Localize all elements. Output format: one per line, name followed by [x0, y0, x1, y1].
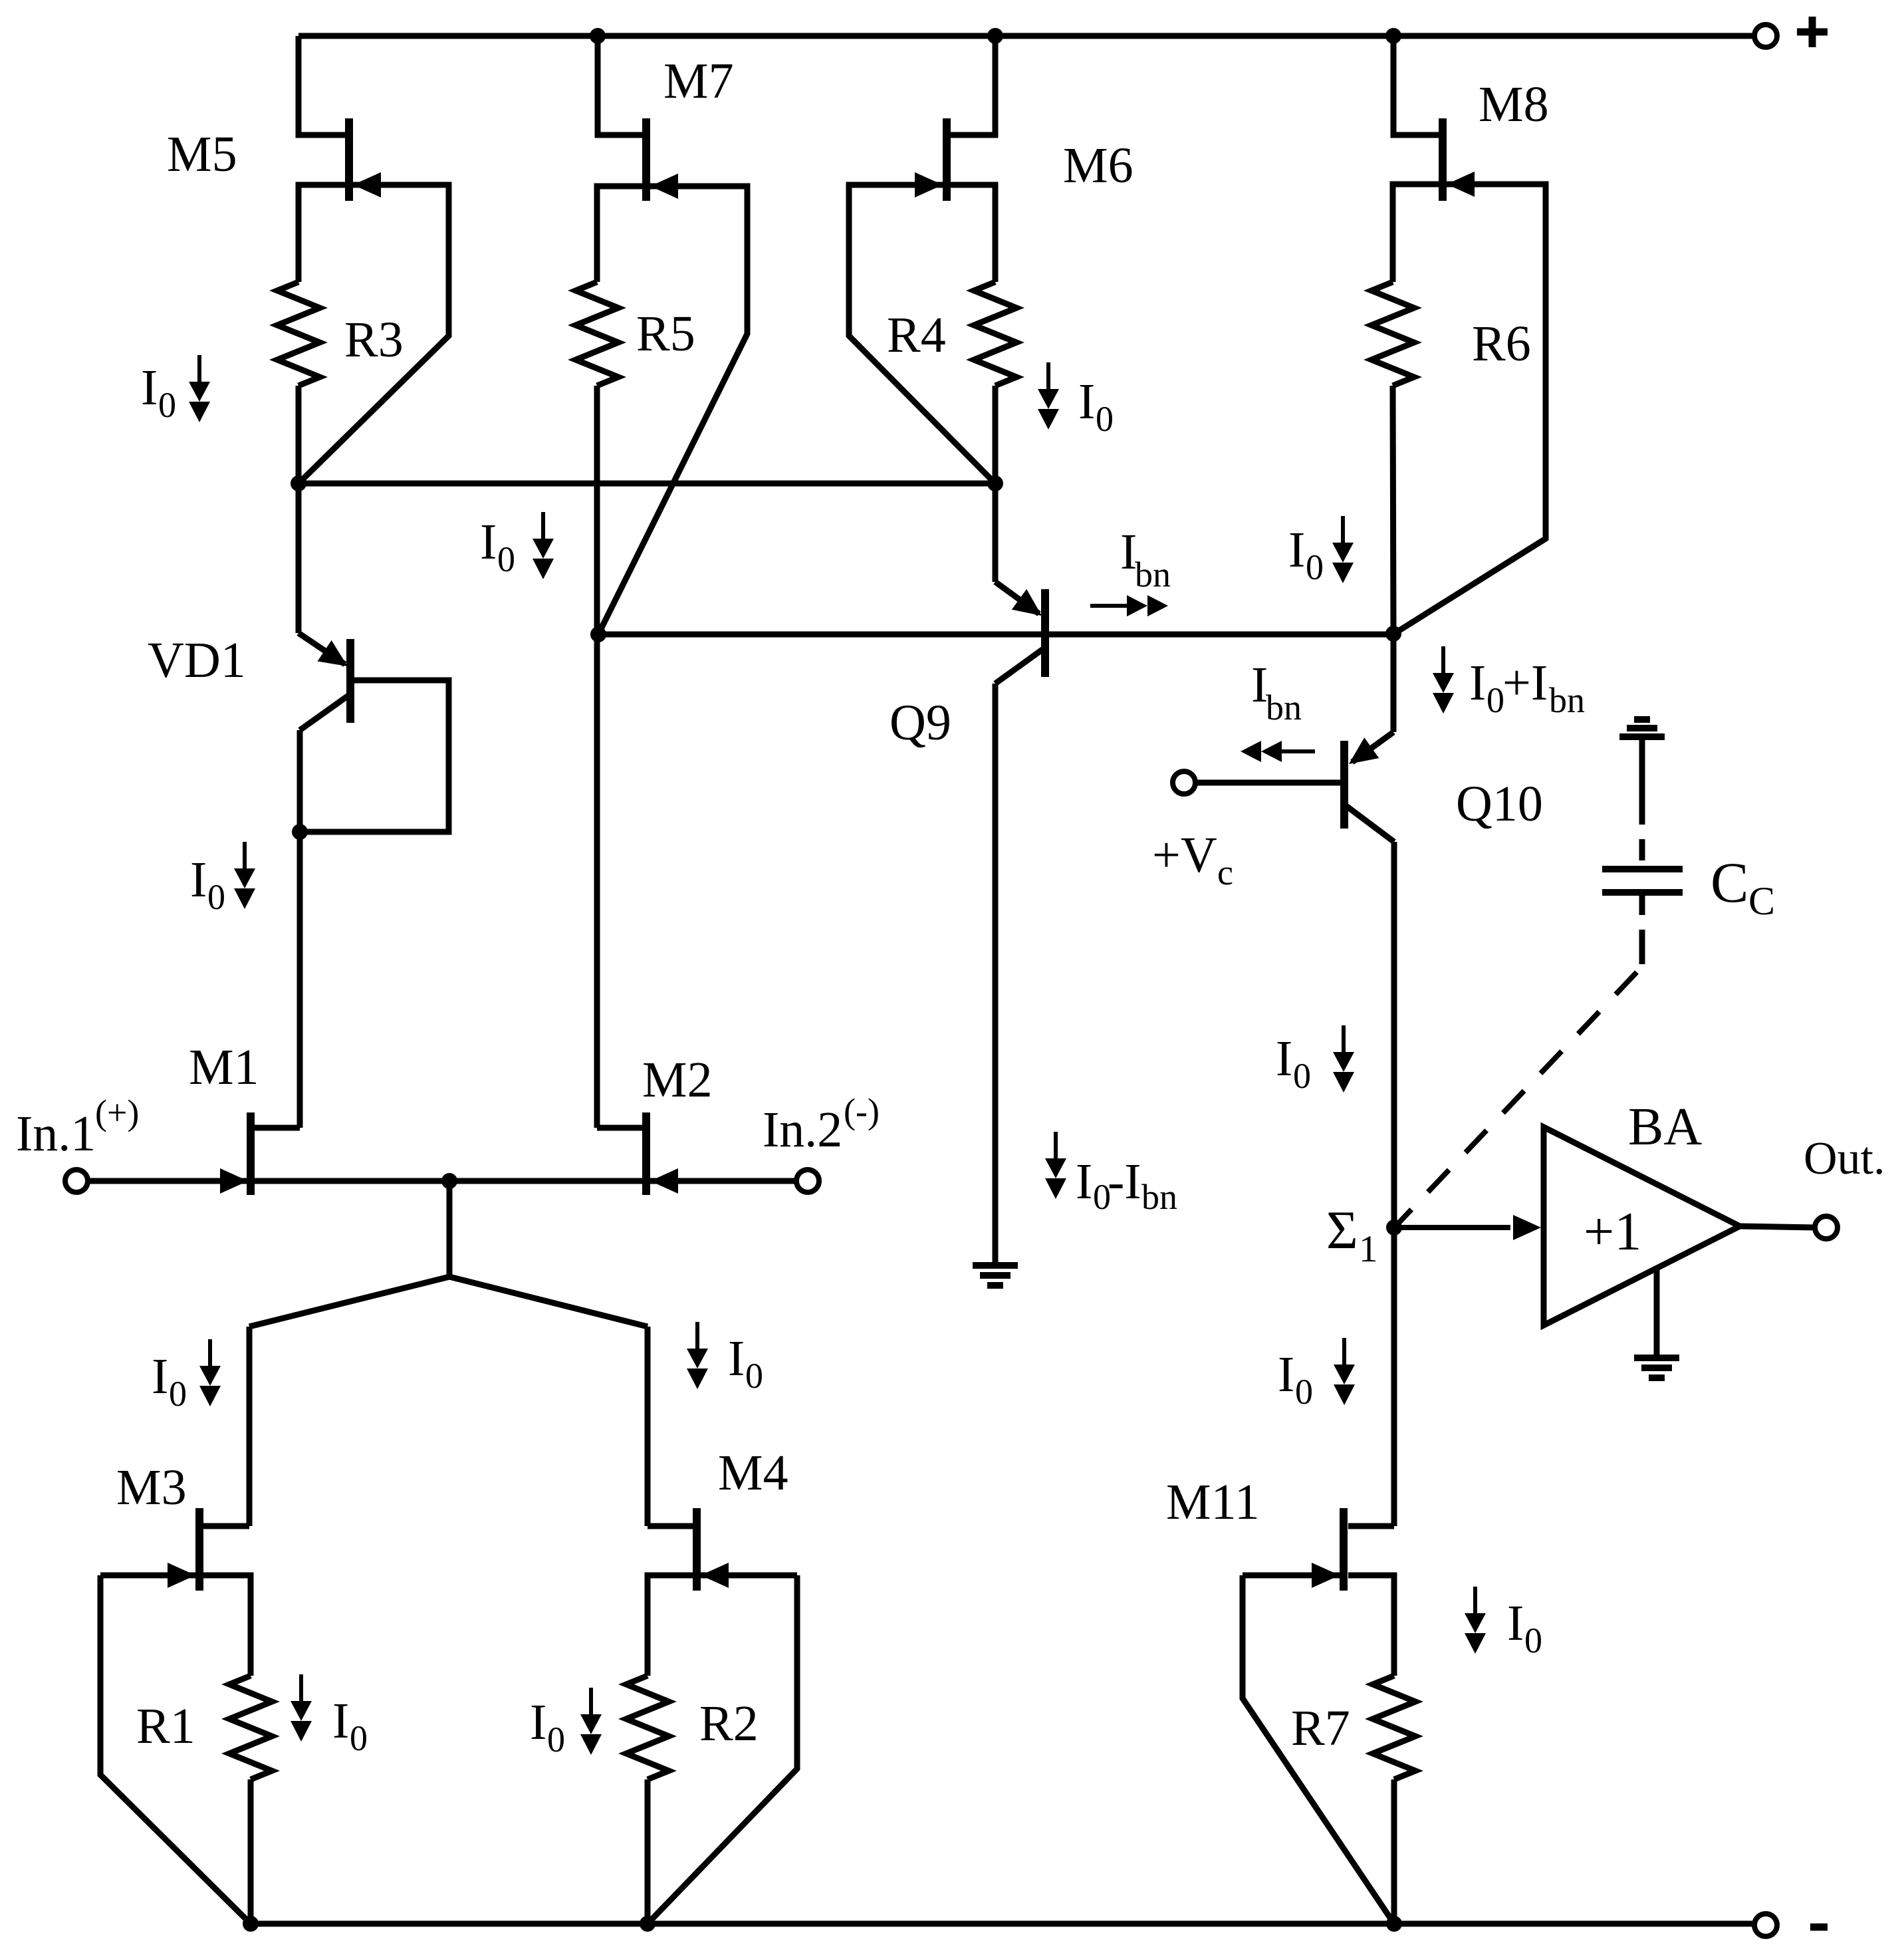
svg-text:0: 0: [1524, 1621, 1542, 1660]
svg-text:0: 0: [169, 1374, 187, 1414]
svg-text:I: I: [530, 1694, 546, 1750]
svg-text:I: I: [152, 1349, 168, 1404]
svg-text:0: 0: [497, 539, 515, 579]
svg-text:I: I: [1078, 374, 1095, 430]
svg-text:R2: R2: [699, 1696, 759, 1752]
svg-text:bn: bn: [1135, 555, 1171, 594]
svg-text:I: I: [1076, 1154, 1092, 1210]
svg-text:I: I: [728, 1331, 745, 1386]
svg-text:+1: +1: [1584, 1201, 1641, 1261]
svg-text:R3: R3: [344, 312, 404, 368]
svg-text:M8: M8: [1479, 76, 1549, 132]
svg-text:Q10: Q10: [1456, 776, 1543, 832]
svg-text:M1: M1: [189, 1039, 259, 1095]
svg-text:Q9: Q9: [890, 695, 951, 751]
svg-text:I: I: [1288, 522, 1305, 578]
svg-text:bn: bn: [1141, 1177, 1177, 1217]
svg-text:M6: M6: [1063, 138, 1133, 194]
svg-text:C: C: [1711, 850, 1748, 914]
svg-text:bn: bn: [1549, 680, 1585, 720]
svg-text:I: I: [1276, 1031, 1292, 1087]
svg-text:I: I: [1507, 1595, 1524, 1651]
svg-text:0: 0: [1306, 547, 1324, 587]
svg-text:I: I: [1278, 1347, 1294, 1402]
svg-text:0: 0: [1295, 1372, 1313, 1412]
svg-text:I: I: [480, 514, 497, 570]
svg-text:+V: +V: [1152, 827, 1217, 883]
svg-text:In.2: In.2: [763, 1102, 842, 1158]
svg-text:0: 0: [1293, 1056, 1311, 1096]
svg-text:(-): (-): [844, 1091, 880, 1131]
svg-text:c: c: [1217, 852, 1233, 892]
svg-text:In.1: In.1: [16, 1106, 96, 1162]
svg-text:Σ: Σ: [1326, 1200, 1358, 1260]
svg-text:+I: +I: [1502, 655, 1548, 711]
svg-text:I: I: [190, 852, 207, 908]
svg-text:M4: M4: [718, 1445, 788, 1501]
svg-text:R6: R6: [1472, 316, 1531, 372]
svg-text:M5: M5: [167, 126, 237, 182]
svg-text:R4: R4: [887, 307, 946, 363]
svg-text:0: 0: [745, 1356, 763, 1396]
svg-text:0: 0: [350, 1718, 368, 1758]
svg-text:R7: R7: [1291, 1700, 1350, 1756]
svg-text:0: 0: [1096, 399, 1114, 439]
svg-text:1: 1: [1359, 1228, 1378, 1270]
svg-text:VD1: VD1: [148, 632, 246, 688]
svg-text:0: 0: [1487, 680, 1504, 720]
svg-text:M2: M2: [642, 1052, 713, 1108]
svg-text:I: I: [1469, 655, 1486, 711]
svg-text:M3: M3: [116, 1460, 187, 1515]
svg-text:-I: -I: [1108, 1154, 1141, 1210]
svg-text:I: I: [332, 1693, 349, 1749]
svg-text:0: 0: [547, 1720, 565, 1759]
svg-text:Out.: Out.: [1804, 1133, 1885, 1184]
svg-text:bn: bn: [1266, 688, 1302, 727]
svg-text:0: 0: [158, 385, 176, 425]
svg-text:(+): (+): [95, 1093, 139, 1132]
svg-text:0: 0: [207, 877, 225, 917]
svg-text:M7: M7: [663, 53, 734, 109]
svg-text:C: C: [1748, 879, 1775, 923]
svg-text:BA: BA: [1628, 1098, 1702, 1156]
svg-text:R1: R1: [136, 1698, 195, 1754]
svg-text:I: I: [141, 360, 158, 416]
svg-text:R5: R5: [636, 306, 695, 362]
svg-text:M11: M11: [1166, 1474, 1260, 1530]
